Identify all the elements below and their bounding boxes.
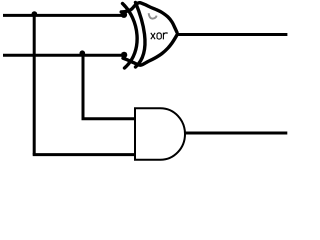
wire XOR output — [176, 33, 287, 36]
gray mark above xor label — [149, 13, 157, 18]
xor gate input arc (extra left arc) — [123, 4, 138, 69]
wire AND output — [184, 132, 287, 135]
and gate U2 — [135, 108, 185, 160]
wire B end dot at XOR input — [121, 52, 127, 58]
junction node on wire B — [80, 50, 86, 56]
wire input A (top horizontal) — [3, 14, 124, 17]
wire vertical branch from B — [82, 53, 85, 119]
wire input B (second horizontal) — [3, 54, 124, 57]
xor gate body back arc — [136, 3, 146, 68]
junction node on wire A — [32, 11, 38, 17]
xor gate U1 — [121, 3, 177, 69]
xor label text — [151, 33, 167, 40]
wire bottom horizontal to AND lower input — [33, 153, 136, 156]
wire horizontal to AND upper input — [82, 117, 137, 120]
wire A end dot at XOR input — [121, 12, 127, 18]
wire vertical branch from A — [33, 14, 36, 155]
xor gate bottom curve — [123, 35, 177, 65]
xor gate top curve — [121, 3, 177, 33]
